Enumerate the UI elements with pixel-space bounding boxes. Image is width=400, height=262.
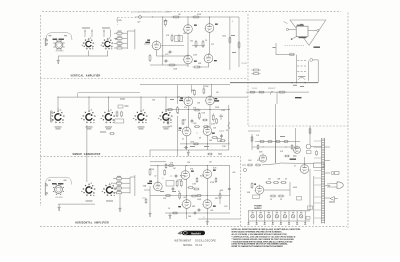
svg-text:150: 150 <box>190 41 193 43</box>
svg-text:VERTICAL AMPLIFIER: VERTICAL AMPLIFIER <box>71 75 101 78</box>
svg-text:INSTRUMENT OSCILLOSCOPE: INSTRUMENT OSCILLOSCOPE <box>174 241 216 243</box>
svg-text:.047: .047 <box>183 197 186 199</box>
svg-text:20: 20 <box>280 199 282 201</box>
svg-text:2.2M: 2.2M <box>193 55 197 57</box>
svg-text:.02: .02 <box>154 176 156 178</box>
svg-text:POWER: POWER <box>254 206 262 208</box>
svg-text:1.5M: 1.5M <box>192 184 196 186</box>
svg-text:.1: .1 <box>232 21 233 23</box>
svg-text:1.5M: 1.5M <box>221 110 225 112</box>
svg-text:REFER TO CHASSIS PHOTOGRAPHS F: REFER TO CHASSIS PHOTOGRAPHS FOR PARTS P… <box>232 245 284 248</box>
svg-text:SYNC: SYNC <box>222 146 226 148</box>
svg-text:1500: 1500 <box>222 36 226 38</box>
svg-text:.047: .047 <box>183 33 186 35</box>
svg-text:TO PIN 1: TO PIN 1 <box>241 63 247 65</box>
svg-text:SUPPLY: SUPPLY <box>254 208 262 210</box>
svg-text:MODEL IO-10: MODEL IO-10 <box>183 245 203 247</box>
svg-text:2.2M: 2.2M <box>211 124 215 126</box>
svg-text:470: 470 <box>257 160 260 162</box>
svg-text:TO GRID: TO GRID <box>116 20 122 22</box>
svg-text:.1: .1 <box>162 178 163 180</box>
svg-text:V5B: V5B <box>256 135 259 137</box>
svg-text:.02: .02 <box>182 139 184 141</box>
svg-text:470: 470 <box>184 107 187 109</box>
svg-text:100: 100 <box>268 179 271 181</box>
svg-text:330: 330 <box>215 198 218 200</box>
svg-text:HORIZONTAL AMPLIFIER: HORIZONTAL AMPLIFIER <box>75 221 109 224</box>
svg-text:.05: .05 <box>226 130 228 132</box>
svg-text:82K: 82K <box>115 39 118 41</box>
svg-text:20: 20 <box>270 199 272 201</box>
svg-text:Heathkit: Heathkit <box>191 232 201 235</box>
svg-text:40: 40 <box>285 179 287 181</box>
svg-text:SWEEP GENERATOR: SWEEP GENERATOR <box>72 153 100 156</box>
svg-text:.005: .005 <box>193 123 196 125</box>
svg-text:X: X <box>178 113 179 115</box>
svg-text:COUPLING: COUPLING <box>56 51 65 53</box>
svg-text:.047: .047 <box>137 22 140 24</box>
svg-text:.01: .01 <box>178 97 180 99</box>
svg-text:4.7: 4.7 <box>178 191 180 193</box>
svg-text:47: 47 <box>294 166 296 168</box>
svg-text:V: V <box>43 39 44 41</box>
svg-text:.1: .1 <box>196 133 197 135</box>
svg-text:FOCUS: FOCUS <box>252 88 257 90</box>
svg-text:.1: .1 <box>203 217 204 219</box>
svg-text:270: 270 <box>211 44 214 46</box>
svg-text:68: 68 <box>199 138 201 140</box>
svg-text:.001: .001 <box>210 210 213 212</box>
svg-text:INTENSITY: INTENSITY <box>268 88 276 90</box>
svg-text:.005: .005 <box>232 172 235 174</box>
